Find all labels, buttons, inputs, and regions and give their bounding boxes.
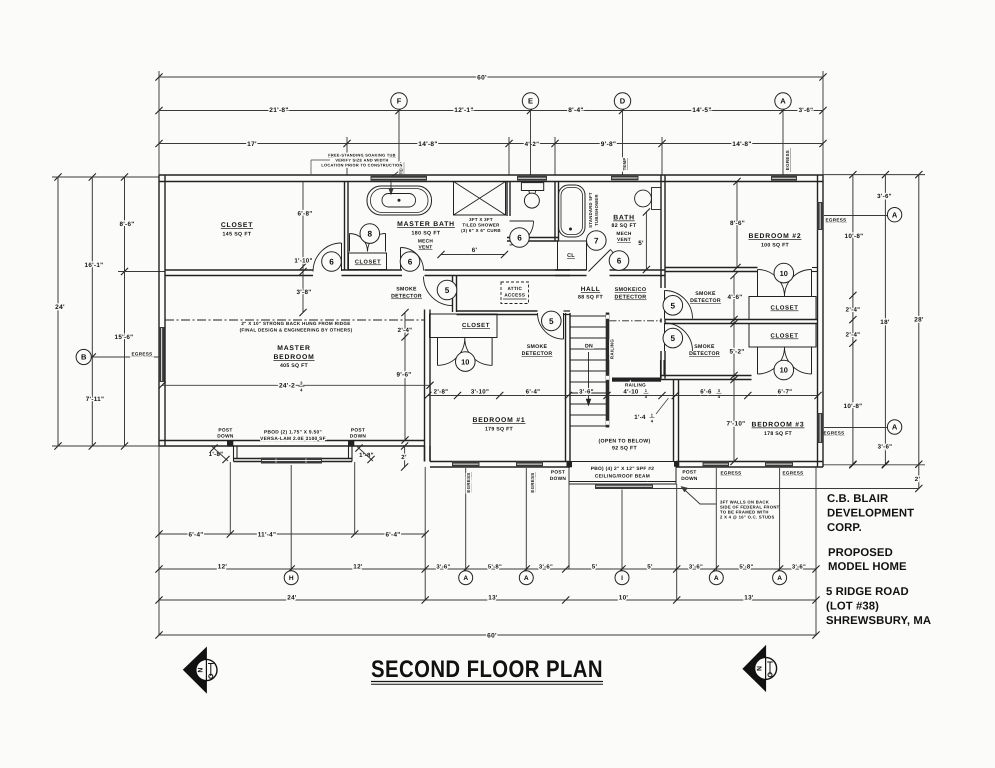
bay jog right xyxy=(351,446,353,462)
grid bubble D xyxy=(614,93,630,109)
attic access xyxy=(501,282,529,304)
svg-text:1'-10": 1'-10" xyxy=(294,258,312,265)
svg-text:B: B xyxy=(81,353,87,362)
dim chain x405: 2-4 / 9-6 xyxy=(404,313,406,441)
bedroom1 window left xyxy=(452,461,480,467)
svg-text:F: F xyxy=(397,97,402,106)
svg-text:CEILING/ROOF BEAM: CEILING/ROOF BEAM xyxy=(595,474,650,480)
WC door xyxy=(510,220,534,222)
svg-text:SECOND FLOOR PLAN: SECOND FLOOR PLAN xyxy=(371,656,603,683)
svg-text:24'-2: 24'-2 xyxy=(279,383,295,390)
jog wall master to bedroom1 xyxy=(425,446,431,462)
svg-text:3FT X 3FT: 3FT X 3FT xyxy=(469,217,493,222)
dim 24-2.75 master bedroom xyxy=(162,384,430,386)
svg-text:6'-4": 6'-4" xyxy=(188,531,203,538)
svg-text:5: 5 xyxy=(671,334,676,343)
bath / bedroom2 wall xyxy=(661,175,665,288)
svg-text:I: I xyxy=(621,575,623,582)
right small rooms divider xyxy=(665,320,748,324)
svg-text:CLOSET: CLOSET xyxy=(221,222,253,229)
svg-text:DOWN: DOWN xyxy=(550,476,567,482)
svg-text:4: 4 xyxy=(718,394,721,399)
svg-text:3'-6": 3'-6" xyxy=(799,107,814,114)
hall dash-dot line xyxy=(610,320,662,322)
svg-text:5'-8": 5'-8" xyxy=(739,563,753,570)
svg-text:A: A xyxy=(780,97,786,106)
svg-text:N: N xyxy=(757,666,764,671)
vestibule wall xyxy=(453,276,457,313)
svg-text:18': 18' xyxy=(880,319,890,326)
bedroom1 closet double doors (10) xyxy=(437,338,439,365)
svg-text:E: E xyxy=(528,97,533,106)
svg-text:DETECTOR: DETECTOR xyxy=(391,294,422,300)
svg-text:(OPEN TO BELOW): (OPEN TO BELOW) xyxy=(599,439,651,445)
dim 6ft in master bath xyxy=(441,254,505,256)
grid bubble A xyxy=(775,93,791,109)
open below top wall continuation xyxy=(660,360,662,382)
top dimension row 1: 60 ft overall xyxy=(159,76,823,78)
post down black square right xyxy=(674,462,679,467)
grid bubble F xyxy=(391,93,407,109)
svg-text:6': 6' xyxy=(472,247,478,254)
bubble I xyxy=(615,571,629,585)
svg-text:DOWN: DOWN xyxy=(350,434,367,440)
svg-text:D: D xyxy=(620,97,626,106)
master soaking tub xyxy=(367,186,432,215)
svg-text:DETECTOR: DETECTOR xyxy=(615,295,647,301)
svg-text:24': 24' xyxy=(287,594,297,601)
bedroom3 top wall xyxy=(661,376,752,380)
svg-text:SHREWSBURY, MA: SHREWSBURY, MA xyxy=(826,615,931,627)
svg-text:3'-10": 3'-10" xyxy=(471,389,489,396)
svg-text:BEDROOM #1: BEDROOM #1 xyxy=(473,417,526,424)
svg-text:SMOKE: SMOKE xyxy=(527,344,548,350)
svg-text:(3) 6" X 6" CURB: (3) 6" X 6" CURB xyxy=(461,228,501,233)
svg-text:DOWN: DOWN xyxy=(217,434,234,440)
svg-text:4: 4 xyxy=(645,394,648,399)
svg-text:SMOKE/CO: SMOKE/CO xyxy=(615,287,647,293)
svg-text:CLOSET: CLOSET xyxy=(462,322,490,329)
svg-text:3'-8": 3'-8" xyxy=(296,289,311,296)
svg-text:A: A xyxy=(524,575,529,582)
bottom dim row 24/13/10/13 xyxy=(159,599,816,601)
double doors to master closet (8) xyxy=(349,234,351,252)
svg-text:CLOSET: CLOSET xyxy=(771,305,799,312)
svg-text:(LOT #38): (LOT #38) xyxy=(826,601,879,613)
svg-text:4: 4 xyxy=(300,388,303,393)
svg-text:8'-6": 8'-6" xyxy=(119,221,134,228)
right chain 3: 28 ft and 2 ft xyxy=(918,175,920,489)
right wall egress window bottom xyxy=(817,413,823,443)
bedroom1 closet box xyxy=(430,314,498,338)
bedroom3 west wall xyxy=(674,380,679,462)
svg-text:8: 8 xyxy=(368,230,373,239)
svg-text:14'-8": 14'-8" xyxy=(418,141,437,148)
railing wall at open below xyxy=(612,378,661,382)
svg-text:21'-8": 21'-8" xyxy=(269,107,288,114)
north arrow left xyxy=(184,648,207,693)
bubble A2 xyxy=(519,571,533,585)
svg-text:9'-6": 9'-6" xyxy=(396,372,411,379)
shower / WC wall xyxy=(507,182,510,217)
svg-text:3'-6": 3'-6" xyxy=(539,563,553,570)
svg-text:ATTIC: ATTIC xyxy=(507,286,522,291)
window under beam box xyxy=(595,484,653,490)
grid bubble A right top xyxy=(887,208,901,222)
leader from F down to soaking tub with arrow xyxy=(391,111,399,191)
svg-text:EGRESS: EGRESS xyxy=(824,431,845,436)
svg-text:SMOKE: SMOKE xyxy=(694,344,715,350)
svg-text:16'-1": 16'-1" xyxy=(85,262,104,269)
right small room door top (5) xyxy=(665,291,693,319)
svg-text:RAILING: RAILING xyxy=(625,382,646,387)
svg-text:6'-4": 6'-4" xyxy=(385,531,400,538)
svg-text:BEDROOM #2: BEDROOM #2 xyxy=(749,233,802,240)
top wall window at WC xyxy=(517,176,547,181)
top dimension row 3 xyxy=(159,143,823,145)
svg-text:EGRESS: EGRESS xyxy=(530,472,535,492)
svg-text:3'-6": 3'-6" xyxy=(689,563,703,570)
svg-text:12': 12' xyxy=(353,563,363,570)
svg-text:4: 4 xyxy=(651,419,654,424)
top wall window at bedroom2 xyxy=(771,176,797,181)
svg-text:EGRESS: EGRESS xyxy=(721,471,742,476)
svg-text:TUB/SHOWER: TUB/SHOWER xyxy=(594,194,599,226)
svg-text:VERSA-LAM 2.0E 3100 SF: VERSA-LAM 2.0E 3100 SF xyxy=(260,436,326,442)
dim 8-6 bedroom2 xyxy=(736,182,738,268)
svg-text:DETECTOR: DETECTOR xyxy=(522,351,553,357)
svg-text:N: N xyxy=(198,667,205,672)
bath tub xyxy=(559,185,586,237)
bedroom3 closet double doors (10) xyxy=(757,347,759,374)
left extension lines xyxy=(52,176,159,178)
master bath door xyxy=(400,248,402,271)
svg-text:A: A xyxy=(463,575,468,582)
svg-text:VENT: VENT xyxy=(617,237,631,243)
svg-text:3'-6": 3'-6" xyxy=(792,563,806,570)
grid bubble B with leader xyxy=(91,356,159,358)
bedroom1 door (5) xyxy=(563,313,565,339)
bedroom1 window right xyxy=(516,461,543,467)
svg-text:DETECTOR: DETECTOR xyxy=(690,298,721,304)
svg-text:3'-6": 3'-6" xyxy=(878,444,893,451)
svg-text:5 RIDGE ROAD: 5 RIDGE ROAD xyxy=(826,586,909,598)
svg-text:3'-6": 3'-6" xyxy=(579,389,594,396)
svg-text:6'-4": 6'-4" xyxy=(526,389,541,396)
extension lines top xyxy=(158,71,160,175)
svg-text:C.B. BLAIR: C.B. BLAIR xyxy=(827,493,888,505)
svg-text:1: 1 xyxy=(651,413,654,418)
svg-text:MODEL HOME: MODEL HOME xyxy=(828,561,907,573)
strongback dash-dot line xyxy=(165,319,425,321)
svg-text:5'-2": 5'-2" xyxy=(729,349,744,356)
svg-text:CORP.: CORP. xyxy=(827,522,862,534)
bottom dim row 60 xyxy=(159,634,816,636)
bedroom1 east / stair wall xyxy=(566,313,571,462)
svg-text:ACCESS: ACCESS xyxy=(504,293,525,298)
svg-text:7: 7 xyxy=(594,236,599,245)
svg-text:7'-11": 7'-11" xyxy=(86,396,105,403)
bedroom3 bottom wall xyxy=(676,462,823,468)
svg-text:CLOSET: CLOSET xyxy=(771,333,799,340)
svg-text:4'-2": 4'-2" xyxy=(525,141,540,148)
svg-text:10'-8": 10'-8" xyxy=(844,403,863,410)
svg-text:EGRESS: EGRESS xyxy=(466,472,471,492)
WC / tub wall xyxy=(555,182,559,242)
svg-text:PBOD (2) 1.75" X 9.50": PBOD (2) 1.75" X 9.50" xyxy=(264,430,322,436)
svg-text:10': 10' xyxy=(619,594,629,601)
bedroom1 top wall xyxy=(457,311,538,315)
svg-text:2" X 10" STRONG BACK HUNG FROM: 2" X 10" STRONG BACK HUNG FROM RIDGE xyxy=(241,321,350,326)
master posts xyxy=(227,440,233,446)
svg-text:HALL: HALL xyxy=(581,286,600,293)
svg-text:BEDROOM: BEDROOM xyxy=(273,354,314,361)
outer wall master bottom xyxy=(159,441,425,447)
svg-text:MECH: MECH xyxy=(418,239,434,245)
bay jog left xyxy=(233,446,235,462)
svg-text:1: 1 xyxy=(645,388,648,393)
stairs treads xyxy=(570,316,606,426)
svg-text:POST: POST xyxy=(218,428,232,434)
W1 segment under CL closet xyxy=(555,270,587,276)
bubble A1 xyxy=(459,571,473,585)
svg-text:82 SQ FT: 82 SQ FT xyxy=(612,223,637,229)
svg-text:2'-4": 2'-4" xyxy=(398,327,413,334)
bottom extension lines xyxy=(158,446,160,635)
svg-text:7'-10": 7'-10" xyxy=(727,421,746,428)
bottom dim row 12/12/3-6/5-8/... xyxy=(159,568,816,570)
left dim chain 24 ft xyxy=(57,177,59,446)
svg-text:2'-4": 2'-4" xyxy=(846,332,861,339)
bedroom2 closet box xyxy=(749,297,816,320)
svg-text:10'-8": 10'-8" xyxy=(845,233,864,240)
closet145 right wall xyxy=(345,182,349,271)
svg-text:6'-8": 6'-8" xyxy=(297,211,312,218)
closet145 door xyxy=(341,243,343,271)
svg-text:8'-6": 8'-6" xyxy=(730,220,745,227)
svg-text:RAILING: RAILING xyxy=(610,339,615,359)
right extension lines xyxy=(823,174,925,176)
svg-text:2': 2' xyxy=(401,454,407,461)
dim chain x303: 6-8 / 1-10 / 3-8 xyxy=(302,182,304,313)
grid bubble A right bottom xyxy=(887,420,901,434)
svg-text:14'-5": 14'-5" xyxy=(692,107,711,114)
outer wall right xyxy=(818,175,824,467)
left dim chain 16-1 / 7-11 xyxy=(91,177,93,446)
svg-text:8'-4": 8'-4" xyxy=(568,107,584,114)
svg-text:EGRESS: EGRESS xyxy=(826,218,847,223)
svg-text:5': 5' xyxy=(647,563,653,570)
svg-text:60': 60' xyxy=(487,633,497,640)
svg-text:60': 60' xyxy=(477,75,487,82)
svg-text:3'-6": 3'-6" xyxy=(436,563,450,570)
bubble A3 xyxy=(709,571,723,585)
svg-text:4'-10: 4'-10 xyxy=(623,389,638,396)
svg-text:5: 5 xyxy=(671,301,676,310)
svg-text:SMOKE: SMOKE xyxy=(695,291,716,297)
svg-text:A: A xyxy=(714,575,719,582)
svg-text:12': 12' xyxy=(218,563,228,570)
WC toilet xyxy=(521,183,543,191)
svg-text:PBO) (4) 2" X 12" SPF #2: PBO) (4) 2" X 12" SPF #2 xyxy=(591,466,654,472)
leader to egress window bottom right xyxy=(824,427,888,429)
svg-text:BEDROOM #3: BEDROOM #3 xyxy=(752,422,805,429)
svg-text:28': 28' xyxy=(914,317,924,324)
outer wall top xyxy=(159,175,823,182)
svg-text:14'-8": 14'-8" xyxy=(732,141,751,148)
left wall egress window xyxy=(159,327,165,382)
svg-text:5': 5' xyxy=(638,240,644,247)
svg-text:6'-6: 6'-6 xyxy=(700,389,712,396)
svg-text:12'-1": 12'-1" xyxy=(454,107,473,114)
svg-text:3: 3 xyxy=(300,381,303,386)
leader to egress window top right xyxy=(824,215,888,217)
svg-text:11'-4": 11'-4" xyxy=(258,531,277,538)
bath door (7) xyxy=(589,250,611,272)
outer wall left xyxy=(159,175,165,446)
DN arrow xyxy=(588,352,590,400)
bottom dim row 6-4 / 11-4 / 6-4 xyxy=(159,533,425,535)
svg-text:145 SQ FT: 145 SQ FT xyxy=(223,232,252,238)
right chain 1: 10-8/2-4/2-4/10-8 xyxy=(852,175,854,465)
svg-text:17': 17' xyxy=(247,141,257,148)
svg-text:6'-7": 6'-7" xyxy=(778,389,793,396)
svg-text:(FINAL DESIGN & ENGINEERING BY: (FINAL DESIGN & ENGINEERING BY OTHERS) xyxy=(240,328,353,333)
svg-text:EGRESS: EGRESS xyxy=(132,352,153,357)
svg-text:2 X 4 @ 16" O.C. STUDS: 2 X 4 @ 16" O.C. STUDS xyxy=(720,515,775,520)
svg-text:13': 13' xyxy=(744,594,754,601)
svg-text:1'-4: 1'-4 xyxy=(634,414,646,421)
svg-text:BATH: BATH xyxy=(613,215,635,222)
bedroom2 bottom wall xyxy=(665,268,758,272)
top wall window at master tub xyxy=(371,176,428,181)
bubble A4 xyxy=(773,571,787,585)
svg-text:10: 10 xyxy=(780,366,788,375)
svg-text:MECH: MECH xyxy=(616,231,632,237)
svg-text:DEVELOPMENT: DEVELOPMENT xyxy=(827,508,914,520)
bedroom1 west wall xyxy=(425,310,431,462)
svg-text:6: 6 xyxy=(408,257,413,266)
svg-text:10: 10 xyxy=(780,269,788,278)
svg-text:MASTER BATH: MASTER BATH xyxy=(397,221,455,228)
svg-text:EGRESS: EGRESS xyxy=(783,471,804,476)
svg-text:EGRESS: EGRESS xyxy=(785,150,790,170)
bath sink xyxy=(652,188,662,210)
top dimension row 2 xyxy=(159,110,823,112)
svg-text:6: 6 xyxy=(329,257,334,266)
CL linen closet xyxy=(558,241,587,270)
svg-text:9'-8": 9'-8" xyxy=(601,141,617,148)
svg-text:POST: POST xyxy=(351,428,365,434)
bedroom3 window right xyxy=(765,461,793,467)
svg-text:10: 10 xyxy=(461,357,469,366)
main corridor wall W1 with openings xyxy=(165,270,313,276)
bath south wall xyxy=(507,238,559,242)
2ft jog dim xyxy=(404,446,406,467)
right small room door bottom (5) xyxy=(665,323,693,351)
svg-text:3: 3 xyxy=(718,388,721,393)
north arrow right xyxy=(743,646,766,691)
svg-text:PROPOSED: PROPOSED xyxy=(828,547,893,559)
bay front wall xyxy=(234,459,353,462)
svg-text:CL: CL xyxy=(567,253,575,259)
svg-text:2'-8": 2'-8" xyxy=(434,389,449,396)
right wall egress window top xyxy=(817,202,823,230)
svg-text:15'-6": 15'-6" xyxy=(115,334,134,341)
bedroom2 closet double doors (10) xyxy=(757,270,759,297)
svg-text:405 SQ FT: 405 SQ FT xyxy=(280,363,309,369)
svg-text:4'-6": 4'-6" xyxy=(727,294,742,301)
dim 5ft in bath xyxy=(645,212,647,270)
bubble H xyxy=(284,571,298,585)
bedroom3 window left xyxy=(703,461,730,467)
top wall window at bath xyxy=(611,176,639,181)
master hall closet box xyxy=(349,253,387,270)
svg-text:5: 5 xyxy=(549,317,554,326)
svg-text:LOCATION PRIOR TO CONSTRUCTION: LOCATION PRIOR TO CONSTRUCTION xyxy=(321,163,402,168)
svg-text:POST: POST xyxy=(682,470,696,476)
svg-text:A: A xyxy=(892,210,898,219)
svg-text:180 SQ FT: 180 SQ FT xyxy=(412,231,441,237)
master suite entry door (5) xyxy=(424,277,453,306)
svg-text:179 SQ FT: 179 SQ FT xyxy=(485,427,514,433)
svg-text:TEMP: TEMP xyxy=(622,158,627,171)
bedroom3 closet box xyxy=(749,324,816,348)
stair right rail wall xyxy=(606,313,610,428)
svg-text:5: 5 xyxy=(445,286,450,295)
left dim chain 8-6 / 15-6 xyxy=(124,177,126,446)
right chain 2: 3-6/18/3-6 with A bubbles xyxy=(884,175,886,465)
svg-text:6: 6 xyxy=(517,233,522,242)
svg-text:TILED SHOWER: TILED SHOWER xyxy=(462,223,500,228)
svg-text:5': 5' xyxy=(592,563,598,570)
svg-text:2': 2' xyxy=(915,476,921,483)
svg-text:POST: POST xyxy=(551,470,565,476)
svg-text:88 SQ FT: 88 SQ FT xyxy=(578,295,603,301)
svg-text:2'-4": 2'-4" xyxy=(846,307,861,314)
dim chain x734: 4-6 / 5-2 / 7-10 xyxy=(733,276,735,462)
svg-text:5'-8": 5'-8" xyxy=(488,563,502,570)
svg-text:100 SQ FT: 100 SQ FT xyxy=(761,243,790,249)
grid bubble E xyxy=(522,93,538,109)
svg-text:13': 13' xyxy=(488,594,498,601)
svg-text:DOWN: DOWN xyxy=(681,476,698,482)
tiled shower xyxy=(454,182,506,216)
svg-text:A: A xyxy=(777,575,782,582)
closet column divider xyxy=(748,320,818,324)
svg-text:3'-6": 3'-6" xyxy=(877,193,892,200)
bedroom1 bottom wall xyxy=(430,462,570,468)
svg-text:6: 6 xyxy=(617,257,622,266)
svg-text:DN: DN xyxy=(585,344,593,350)
svg-text:STANDARD 5FT: STANDARD 5FT xyxy=(588,192,593,228)
svg-text:CLOSET: CLOSET xyxy=(355,260,381,266)
svg-text:92 SQ FT: 92 SQ FT xyxy=(612,446,637,452)
svg-text:VENT: VENT xyxy=(419,245,433,251)
svg-text:H: H xyxy=(289,575,294,582)
svg-text:DETECTOR: DETECTOR xyxy=(689,351,720,357)
interior dim row y395.5 xyxy=(428,395,818,397)
svg-text:178 SQ FT: 178 SQ FT xyxy=(764,431,793,437)
svg-text:SMOKE: SMOKE xyxy=(396,287,417,293)
svg-text:24': 24' xyxy=(55,304,65,311)
bay window xyxy=(261,458,322,464)
ceiling/roof beam box xyxy=(569,462,676,485)
svg-text:A: A xyxy=(892,423,898,432)
svg-text:MASTER: MASTER xyxy=(277,345,311,352)
post down black square left xyxy=(567,461,573,467)
